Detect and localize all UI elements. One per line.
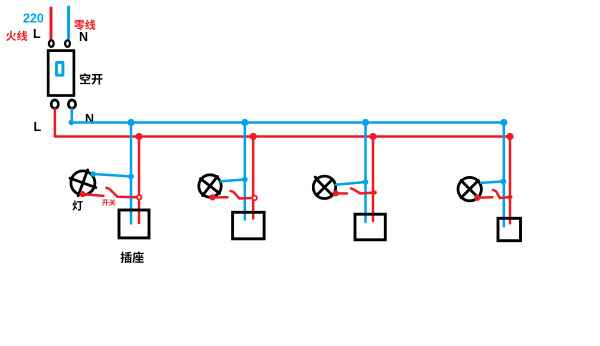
wire: live drop 3 (red vertical): [372, 137, 375, 222]
node: live bus end corner (drop 4): [506, 133, 513, 140]
node: lamp EL4 live terminal: [475, 196, 479, 200]
svg-text:N: N: [85, 112, 94, 126]
circuit breaker 空开: output terminal N (bottom right): [68, 100, 75, 108]
node: lamp EL1 neutral terminal: [91, 171, 96, 176]
lamp EL3 (⊗ symbol): [313, 176, 335, 198]
wire: neutral drop 2 (blue vertical): [244, 123, 247, 220]
node: junction drop 1 on neutral bus: [127, 119, 134, 126]
svg-text:220: 220: [23, 12, 44, 26]
circuit breaker 空开: blue switch mark: [57, 62, 63, 75]
svg-text:L: L: [34, 120, 42, 134]
svg-text:L: L: [33, 27, 41, 41]
circuit breaker 空开: body: [48, 51, 74, 96]
wire: neutral feed from 220V supply (blue): [67, 7, 70, 39]
socket X1 (插座): [119, 210, 149, 238]
wire: lamp EL1 return to switch S1 (red): [83, 194, 104, 196]
wire: neutral to lamp EL3 (blue): [336, 182, 366, 185]
wire: lamp EL4 return to switch S4 (red): [477, 196, 492, 199]
node: lamp EL1 live terminal: [80, 192, 84, 196]
wire: lamp EL3 return to switch S3 (red): [336, 192, 347, 195]
switch S2 blade (open): [231, 191, 255, 199]
label: 灯 (lamp): [72, 200, 82, 210]
wire: live drop 2 (red vertical): [252, 137, 255, 219]
node: lamp EL2 live terminal: [210, 195, 214, 199]
node: junction on neutral drop 4: [500, 179, 506, 185]
lamp EL4 (⊗ symbol): [458, 177, 481, 200]
wire: neutral to lamp EL2 (blue): [221, 180, 245, 182]
wire: lamp EL2 return to switch S2 (red): [213, 196, 228, 199]
node: neutral bus corner at breaker: [69, 120, 74, 125]
label: 空开 (circuit breaker): [80, 73, 103, 84]
node: junction on neutral drop 1: [128, 174, 134, 180]
node: junction drop 3 on neutral bus: [362, 119, 369, 126]
svg-text:N: N: [79, 30, 88, 44]
node: junction drop 3 on live bus: [369, 133, 376, 140]
circuit breaker 空开: input terminal N (top right): [65, 40, 70, 47]
wire: neutral drop 3 (blue vertical): [364, 123, 367, 223]
node: junction drop 2 on neutral bus: [241, 119, 248, 126]
label: 火线 (live wire): [6, 31, 27, 41]
node: neutral bus end corner (drop 4): [500, 119, 507, 126]
switch S3 blade (open): [351, 188, 374, 193]
label: 零线 (neutral wire): [74, 20, 96, 31]
wire: neutral bus N — down from breaker, right along y=122.5, down to socket 4 (blue): [72, 109, 504, 226]
lamp EL1 (⊗ symbol): [70, 170, 96, 196]
node: switch S2 connection on live drop: [252, 196, 257, 201]
lamp EL2 (⊗ symbol): [199, 175, 221, 197]
node: junction on neutral drop 3: [363, 179, 369, 185]
node: switch S3 connection on live drop: [372, 190, 377, 194]
label: 插座 (socket): [120, 252, 143, 263]
switch S4 blade (open): [493, 190, 510, 198]
socket X3 (插座): [355, 214, 385, 240]
wire: live drop 1 (red vertical): [138, 137, 141, 224]
node: switch S4 connection on live drop: [507, 195, 512, 199]
wire: live bus L — down from breaker, right along y=136.5, down to socket 4 (red): [55, 109, 510, 223]
socket X4 (插座): [498, 218, 521, 240]
switch S1 blade (open): [106, 188, 139, 198]
node: junction on neutral drop 2: [242, 177, 248, 183]
label: 开关 (switch): [102, 199, 116, 206]
socket X2 (插座): [233, 212, 265, 239]
wire: live feed from 220V supply (red): [50, 8, 53, 40]
node: junction drop 1 on live bus: [135, 133, 142, 140]
circuit breaker 空开: input terminal L (top left): [49, 40, 54, 47]
wire: neutral drop 1 (blue vertical): [130, 123, 133, 224]
node: junction drop 2 on live bus: [250, 133, 257, 140]
wire: neutral to lamp EL4 (blue): [481, 181, 503, 183]
circuit breaker 空开: output terminal L (bottom left): [51, 100, 58, 108]
node: switch S1 connection on live drop: [137, 195, 142, 200]
wire: neutral to lamp EL1 (blue): [93, 174, 131, 177]
node: lamp EL3 live terminal: [334, 191, 338, 195]
